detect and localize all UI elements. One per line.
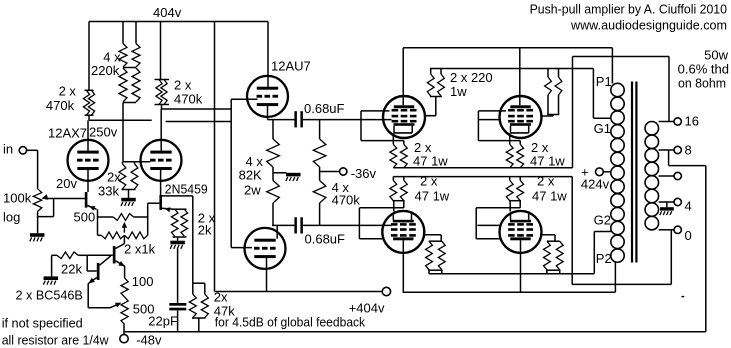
- svg-text:-48v: -48v: [136, 333, 162, 348]
- svg-text:47 1w: 47 1w: [415, 189, 450, 204]
- svg-text:250v: 250v: [89, 125, 118, 140]
- svg-text:in: in: [3, 142, 13, 157]
- svg-text:100k: 100k: [3, 191, 32, 206]
- svg-text:470k: 470k: [332, 193, 361, 208]
- svg-text:0.68uF: 0.68uF: [305, 232, 346, 247]
- svg-text:G2: G2: [594, 213, 611, 228]
- svg-text:-36v: -36v: [351, 166, 377, 181]
- svg-text:20v: 20v: [56, 176, 77, 191]
- svg-text:47 1w: 47 1w: [532, 189, 567, 204]
- svg-text:8: 8: [685, 143, 692, 158]
- svg-text:12AX7: 12AX7: [48, 126, 87, 141]
- svg-text:P2: P2: [596, 251, 612, 266]
- svg-text:22k: 22k: [61, 262, 82, 277]
- svg-text:33k: 33k: [98, 184, 119, 199]
- svg-text:4: 4: [685, 199, 692, 214]
- svg-text:for 4.5dB of global feedback: for 4.5dB of global feedback: [215, 315, 366, 330]
- svg-text:0: 0: [685, 228, 692, 243]
- svg-text:500: 500: [74, 210, 96, 225]
- svg-text:2w: 2w: [244, 183, 261, 198]
- svg-text:0.68uF: 0.68uF: [304, 101, 345, 116]
- svg-text:2 x: 2 x: [174, 78, 192, 93]
- svg-text:2 x: 2 x: [420, 174, 438, 189]
- svg-text:2 x 220: 2 x 220: [450, 70, 493, 85]
- svg-text:404v: 404v: [153, 5, 182, 20]
- svg-text:470k: 470k: [46, 98, 75, 113]
- svg-text:P1: P1: [596, 74, 612, 89]
- svg-text:220k: 220k: [91, 63, 120, 78]
- svg-text:50w: 50w: [704, 48, 728, 63]
- svg-text:Push-pull amplier by A. Ciuffo: Push-pull amplier by A. Ciuffoli 2010: [530, 2, 727, 17]
- svg-text:47 1w: 47 1w: [413, 154, 448, 169]
- svg-text:on 8ohm: on 8ohm: [678, 76, 726, 91]
- svg-text:2x: 2x: [214, 290, 228, 305]
- svg-text:470k: 470k: [174, 92, 203, 107]
- svg-text:if not specified: if not specified: [2, 316, 83, 331]
- svg-text:2 x: 2 x: [537, 174, 555, 189]
- svg-text:424v: 424v: [581, 177, 610, 192]
- svg-text:2x: 2x: [107, 170, 121, 185]
- svg-text:log: log: [3, 210, 20, 225]
- svg-text:100: 100: [132, 274, 154, 289]
- svg-text:www.audiodesignguide.com: www.audiodesignguide.com: [570, 17, 727, 32]
- svg-text:+404v: +404v: [349, 301, 385, 316]
- svg-text:G1: G1: [594, 121, 611, 136]
- svg-text:all resistor are 1/4w: all resistor are 1/4w: [2, 333, 109, 348]
- svg-text:82K: 82K: [239, 168, 262, 183]
- svg-text:0.6% thd: 0.6% thd: [678, 62, 729, 77]
- svg-text:2 x: 2 x: [59, 84, 77, 99]
- svg-text:2N5459: 2N5459: [165, 182, 208, 197]
- svg-text:12AU7: 12AU7: [271, 59, 311, 74]
- svg-text:2 x1k: 2 x1k: [124, 242, 156, 257]
- svg-text:2k: 2k: [198, 223, 212, 238]
- svg-text:16: 16: [685, 114, 699, 129]
- svg-text:47 1w: 47 1w: [530, 154, 565, 169]
- svg-text:22pF: 22pF: [148, 314, 178, 329]
- svg-text:2 x BC546B: 2 x BC546B: [16, 288, 83, 303]
- svg-text:1w: 1w: [450, 84, 467, 99]
